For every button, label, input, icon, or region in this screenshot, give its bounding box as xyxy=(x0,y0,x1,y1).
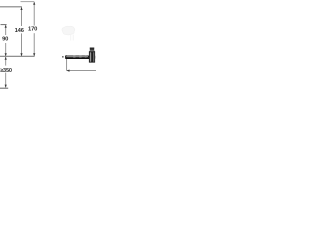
bar left cap xyxy=(65,55,67,59)
svg-text:146: 146 xyxy=(15,28,25,34)
dimension 90 line xyxy=(5,25,7,56)
dimension >=350 arrows xyxy=(5,57,7,88)
bracket cap (top of block) xyxy=(90,48,94,51)
block inner light stripe right xyxy=(92,52,95,61)
small dot left of bar xyxy=(62,56,63,57)
bar bottom dark edge xyxy=(66,57,95,60)
svg-text:170: 170 xyxy=(28,27,37,33)
block inner light stripe left xyxy=(89,52,92,61)
dimension 146 line xyxy=(21,7,23,55)
cap separation line xyxy=(90,50,95,53)
bracket body (block) xyxy=(89,51,95,62)
dimension 146 arrows xyxy=(20,7,22,56)
dimension 170 line xyxy=(33,2,35,56)
svg-text:90: 90 xyxy=(2,36,8,42)
reference level line (for 146) xyxy=(0,6,22,8)
reference tick (for 90) xyxy=(1,24,7,26)
block mid subtle stripe xyxy=(90,53,93,62)
cap top dark line xyxy=(90,47,94,50)
bar highlight line xyxy=(66,55,88,58)
dimension 170 arrows xyxy=(33,2,35,56)
reference level line top (for 170) xyxy=(21,1,35,3)
faint product sketch (very light, center-right) xyxy=(62,26,75,40)
dimension >=350 line xyxy=(5,57,7,87)
background xyxy=(0,0,96,96)
dimension 90 arrows xyxy=(5,25,7,56)
floor line xyxy=(0,87,8,89)
wall bar (dark rail) xyxy=(65,56,95,59)
bar light segment 3 xyxy=(85,56,87,58)
leader arrow xyxy=(67,70,70,72)
svg-text:≥350: ≥350 xyxy=(0,68,12,74)
bar light segment 2 xyxy=(79,56,81,58)
leader vertical line below bar xyxy=(66,59,68,71)
bar light segment 1 xyxy=(73,56,75,58)
bar axis line xyxy=(0,55,35,57)
leader horizontal line xyxy=(67,70,96,72)
